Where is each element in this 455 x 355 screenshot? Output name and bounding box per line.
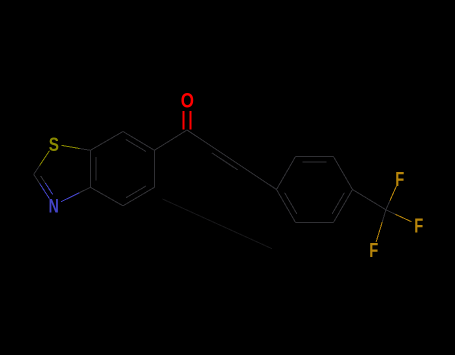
svg-text:F: F <box>395 168 404 191</box>
svg-text:N: N <box>49 195 59 217</box>
svg-text:F: F <box>369 239 378 262</box>
svg-text:S: S <box>49 135 59 156</box>
svg-text:F: F <box>414 215 423 238</box>
svg-text:O: O <box>181 88 194 112</box>
